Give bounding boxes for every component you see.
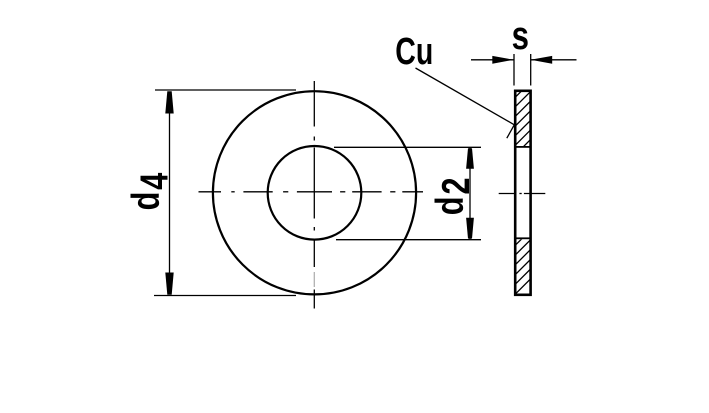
svg-text:s: s (512, 13, 529, 58)
svg-text:Cu: Cu (395, 31, 433, 73)
svg-text:d2: d2 (428, 176, 477, 215)
